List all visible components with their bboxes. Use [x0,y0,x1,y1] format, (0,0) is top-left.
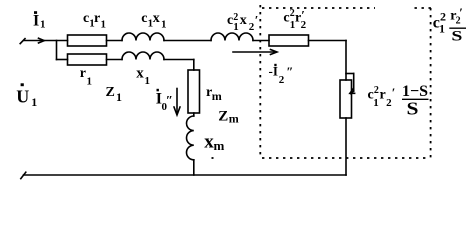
svg-text:m: m [214,138,225,153]
svg-text:1: 1 [233,21,239,33]
svg-text:″: ″ [166,92,173,107]
svg-text:′: ′ [392,85,396,100]
svg-text:2: 2 [374,85,379,96]
svg-text:m: m [212,89,222,103]
svg-text:2: 2 [279,74,285,86]
svg-text:c: c [227,13,233,28]
svg-text:1: 1 [116,90,122,104]
svg-text:r: r [94,11,100,26]
svg-text:c: c [283,11,289,26]
svg-text:c: c [83,11,89,26]
svg-text:S: S [451,29,462,45]
svg-text:′: ′ [255,13,259,28]
svg-text:r: r [80,66,86,81]
svg-text:1: 1 [145,75,151,87]
svg-text:1: 1 [161,19,167,31]
svg-text:1: 1 [373,97,379,109]
svg-text:S: S [407,99,419,119]
svg-text:1: 1 [439,22,445,36]
svg-text:r: r [380,88,386,103]
svg-text:′: ′ [301,7,305,22]
svg-text:U: U [16,87,29,107]
svg-text:x: x [240,13,247,28]
svg-text:′: ′ [459,5,463,20]
svg-text:Z: Z [106,85,115,100]
svg-text:2: 2 [290,8,295,19]
svg-text:1: 1 [101,19,107,31]
svg-text:x: x [136,66,144,82]
svg-text:1: 1 [31,95,37,109]
svg-text:m: m [229,111,239,125]
svg-text:1: 1 [87,76,93,88]
svg-text:c: c [141,11,147,26]
svg-text:I: I [33,13,39,30]
svg-text:″: ″ [286,64,293,79]
svg-text:Z: Z [218,109,228,125]
svg-text:x: x [153,11,160,26]
svg-text:1: 1 [40,19,46,31]
